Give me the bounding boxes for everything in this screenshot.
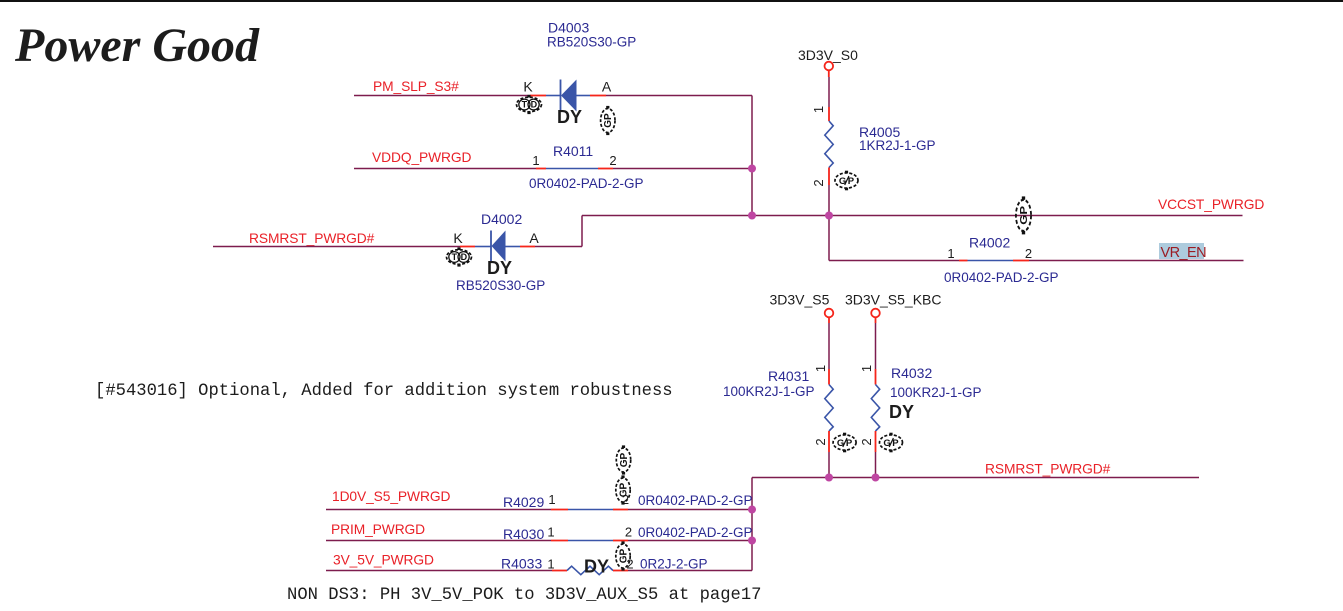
svg-text:R4029: R4029 bbox=[503, 494, 544, 510]
wire R4032 to RSMRST2 bbox=[875, 452, 877, 478]
wire 3D3V_S0 down bbox=[828, 77, 830, 107]
wire RSMRST left segment bbox=[213, 246, 460, 248]
svg-text:A: A bbox=[602, 79, 612, 95]
resistor R4005 pin1 tick bbox=[828, 107, 830, 121]
svg-text:0R2J-2-GP: 0R2J-2-GP bbox=[640, 557, 708, 572]
pin A red tick D4003 bbox=[590, 95, 606, 97]
svg-text:DY: DY bbox=[889, 402, 914, 422]
svg-text:3D3V_S5_KBC: 3D3V_S5_KBC bbox=[845, 292, 942, 308]
svg-text:K: K bbox=[453, 230, 463, 246]
wire row1 right bbox=[628, 509, 752, 511]
resistor R4029 pin1 tick bbox=[551, 509, 568, 511]
svg-text:R4031: R4031 bbox=[768, 368, 809, 384]
svg-text:RSMRST_PWRGD#: RSMRST_PWRGD# bbox=[249, 231, 375, 246]
wire RSMRST right segment bbox=[535, 246, 582, 248]
wire R4031 to RSMRST2 bbox=[828, 452, 830, 478]
wire VR_EN row left bbox=[829, 260, 959, 262]
svg-text:A: A bbox=[529, 230, 539, 246]
svg-text:RB520S30-GP: RB520S30-GP bbox=[456, 278, 545, 293]
svg-text:1D0V_S5_PWRGD: 1D0V_S5_PWRGD bbox=[332, 489, 450, 504]
svg-text:2: 2 bbox=[609, 153, 616, 168]
wire 3D3V_S5_KBC down bbox=[875, 323, 877, 369]
resistor R4030 body (0 ohm) bbox=[568, 540, 613, 542]
svg-text:3D3V_S5: 3D3V_S5 bbox=[770, 292, 830, 308]
resistor R4033 zigzag bbox=[567, 566, 613, 575]
svg-text:1: 1 bbox=[947, 246, 954, 261]
svg-text:1: 1 bbox=[548, 492, 555, 507]
net label VR_EN highlight bbox=[1159, 243, 1204, 259]
svg-text:RSMRST_PWRGD#: RSMRST_PWRGD# bbox=[985, 462, 1111, 477]
pin K red tick D4002 bbox=[460, 246, 475, 248]
diode D4003 cathode bar bbox=[560, 80, 562, 112]
wire VDDQ_PWRGD left segment bbox=[354, 168, 536, 170]
junction row1 x752 bbox=[748, 506, 756, 514]
resistor R4011 body (0 ohm) bbox=[546, 168, 598, 170]
power pin red stub bbox=[828, 71, 830, 78]
wire VDDQ_PWRGD right segment bbox=[613, 168, 752, 170]
junction x752 VDDQ bbox=[748, 165, 756, 173]
stamp vertical at R4033 pin2 bbox=[616, 541, 630, 570]
wire main horizontal VCCST_PWRGD bbox=[582, 215, 1243, 217]
svg-text:DY: DY bbox=[557, 107, 582, 127]
wire vertical x752 bottom bbox=[751, 478, 753, 571]
resistor R4011 pin2 tick bbox=[598, 168, 613, 170]
svg-text:0R0402-PAD-2-GP: 0R0402-PAD-2-GP bbox=[944, 270, 1059, 285]
stamp vertical near D4003 bbox=[601, 106, 615, 135]
svg-text:R4033: R4033 bbox=[501, 556, 542, 572]
svg-text:1: 1 bbox=[811, 106, 826, 113]
sheet top border bbox=[0, 0, 1343, 2]
resistor R4029 body (0 ohm) bbox=[568, 509, 613, 511]
resistor R4030 pin1 tick bbox=[551, 540, 568, 542]
svg-text:2: 2 bbox=[859, 438, 874, 445]
svg-text:2: 2 bbox=[1025, 246, 1032, 261]
stamp vertical above row1 upper bbox=[616, 445, 630, 474]
resistor R4032 zigzag bbox=[871, 385, 879, 432]
svg-text:R4011: R4011 bbox=[553, 143, 593, 159]
stamp TD near K D4003 bbox=[517, 95, 542, 114]
wire PM_SLP_S3# left segment bbox=[354, 95, 530, 97]
svg-text:DY: DY bbox=[487, 258, 512, 278]
resistor R4002 pin1 tick bbox=[959, 260, 968, 262]
svg-text:2: 2 bbox=[625, 525, 632, 540]
junction row2 x752 bbox=[748, 537, 756, 545]
pin K red tick D4003 bbox=[530, 95, 546, 97]
wire row2 left bbox=[326, 540, 551, 542]
junction R4032 bbox=[872, 474, 880, 482]
diode D4003 lead left bbox=[546, 95, 561, 97]
wire RSMRST2 horizontal bbox=[752, 477, 1199, 479]
stamp vertical on VCCST wire bbox=[1016, 196, 1031, 234]
svg-text:RB520S30-GP: RB520S30-GP bbox=[547, 35, 636, 50]
diode D4002 lead left bbox=[475, 246, 491, 248]
svg-text:1: 1 bbox=[813, 365, 828, 372]
power pin red stub KBC bbox=[875, 318, 877, 324]
resistor R4031 pin2 tick bbox=[828, 431, 830, 452]
svg-text:3D3V_S0: 3D3V_S0 bbox=[798, 47, 858, 63]
diode D4002 cathode bar bbox=[490, 231, 492, 262]
svg-text:1: 1 bbox=[532, 153, 539, 168]
wire row1 left bbox=[326, 509, 551, 511]
stamp GP near R4031 pin2 bbox=[833, 433, 856, 453]
diode D4002 triangle bbox=[492, 231, 506, 262]
power pin red stub S5 bbox=[828, 318, 830, 324]
svg-text:VDDQ_PWRGD: VDDQ_PWRGD bbox=[372, 150, 472, 165]
wire R4005 to main bbox=[828, 185, 830, 216]
resistor R4032 pin2 tick bbox=[875, 431, 877, 452]
junction x829 main bbox=[825, 212, 833, 220]
svg-text:0R0402-PAD-2-GP: 0R0402-PAD-2-GP bbox=[638, 493, 753, 508]
svg-text:VCCST_PWRGD: VCCST_PWRGD bbox=[1158, 197, 1264, 212]
resistor R4005 zigzag bbox=[825, 121, 833, 168]
stamp GP near R4005 pin2 bbox=[835, 171, 858, 191]
svg-text:1KR2J-1-GP: 1KR2J-1-GP bbox=[859, 138, 936, 153]
svg-text:2: 2 bbox=[813, 438, 828, 445]
svg-text:1: 1 bbox=[547, 525, 554, 540]
resistor R4032 pin1 tick bbox=[875, 369, 877, 385]
svg-text:DY: DY bbox=[584, 557, 609, 577]
svg-text:0R0402-PAD-2-GP: 0R0402-PAD-2-GP bbox=[529, 176, 644, 191]
stamp TD near K D4002 bbox=[447, 247, 472, 266]
stamp vertical above row1 lower bbox=[616, 475, 630, 504]
svg-text:R4030: R4030 bbox=[503, 526, 544, 542]
svg-text:100KR2J-1-GP: 100KR2J-1-GP bbox=[890, 385, 982, 400]
svg-text:D4003: D4003 bbox=[548, 20, 589, 36]
svg-text:PM_SLP_S3#: PM_SLP_S3# bbox=[373, 79, 459, 94]
diode D4003 lead right bbox=[577, 95, 591, 97]
wire down from main to VR_EN row bbox=[828, 216, 830, 261]
wire vertical step up x582 bbox=[581, 216, 583, 247]
resistor R4029 pin2 tick bbox=[613, 509, 628, 511]
resistor R4031 zigzag bbox=[825, 385, 833, 432]
stamp GP near R4032 pin2 bbox=[880, 433, 903, 453]
wire row3 left bbox=[326, 570, 552, 572]
resistor R4031 pin1 tick bbox=[828, 369, 830, 385]
svg-text:2: 2 bbox=[811, 179, 826, 186]
svg-text:Power Good: Power Good bbox=[14, 19, 260, 72]
svg-text:VR_EN: VR_EN bbox=[1161, 245, 1207, 261]
svg-text:100KR2J-1-GP: 100KR2J-1-GP bbox=[723, 384, 815, 399]
svg-text:[#543016] Optional, Added for: [#543016] Optional, Added for addition s… bbox=[95, 382, 673, 401]
wire PM_SLP_S3# right segment bbox=[606, 95, 752, 97]
resistor R4030 pin2 tick bbox=[613, 540, 628, 542]
svg-text:D4002: D4002 bbox=[481, 211, 522, 227]
diode D4002 lead right bbox=[506, 246, 521, 248]
svg-text:1: 1 bbox=[859, 365, 874, 372]
svg-text:K: K bbox=[523, 79, 533, 95]
resistor R4005 pin2 tick bbox=[828, 168, 830, 186]
wire vertical x752 bbox=[751, 96, 753, 216]
wire row2 right bbox=[628, 540, 752, 542]
svg-text:1: 1 bbox=[547, 557, 554, 572]
wire row3 right bbox=[628, 570, 752, 572]
resistor R4011 pin1 tick bbox=[536, 168, 546, 170]
svg-text:R4032: R4032 bbox=[891, 365, 932, 381]
resistor R4002 pin2 tick bbox=[1013, 260, 1029, 262]
resistor R4033 pin1 tick bbox=[552, 570, 567, 572]
junction x752 main bbox=[748, 212, 756, 220]
resistor R4033 pin2 tick bbox=[613, 570, 628, 572]
wire VR_EN row right bbox=[1029, 260, 1244, 262]
svg-text:R4002: R4002 bbox=[969, 235, 1010, 251]
pin A red tick D4002 bbox=[520, 246, 535, 248]
resistor R4002 body (0 ohm) bbox=[968, 260, 1014, 262]
junction R4031 bbox=[825, 474, 833, 482]
svg-text:0R0402-PAD-2-GP: 0R0402-PAD-2-GP bbox=[638, 525, 753, 540]
wire 3D3V_S5 down bbox=[828, 323, 830, 369]
svg-text:3V_5V_PWRGD: 3V_5V_PWRGD bbox=[333, 553, 434, 568]
svg-text:PRIM_PWRGD: PRIM_PWRGD bbox=[331, 522, 425, 537]
svg-text:NON DS3: PH 3V_5V_POK to 3D3V_: NON DS3: PH 3V_5V_POK to 3D3V_AUX_S5 at … bbox=[287, 586, 761, 605]
diode D4003 triangle bbox=[561, 80, 577, 112]
